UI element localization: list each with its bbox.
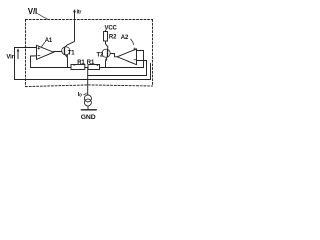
current source I0 — [84, 95, 91, 102]
leader A2 — [131, 39, 134, 45]
wire T2 base to A2 output — [111, 54, 117, 57]
arrow Vin pointing up — [17, 50, 19, 59]
svg-text:T1: T1 — [68, 51, 76, 57]
svg-text:VCC: VCC — [105, 26, 118, 32]
resistor R1 right — [88, 65, 100, 70]
svg-text:V/I: V/I — [28, 7, 37, 16]
svg-text:R1: R1 — [87, 60, 95, 66]
svg-text:A2: A2 — [121, 35, 129, 41]
wire bottom rail — [15, 63, 151, 79]
leader R1 right — [95, 64, 98, 65]
resistor R1 left — [71, 65, 85, 70]
dashed box V/I converter block — [26, 19, 153, 21]
ground — [81, 109, 96, 111]
op-amp A1 — [37, 45, 54, 59]
leader A1 — [42, 42, 45, 47]
svg-text:Vin: Vin — [6, 54, 15, 60]
wire Itr output current — [64, 10, 74, 48]
wire A1 output to T1 base — [54, 51, 62, 53]
transistor T1 — [62, 47, 70, 55]
wire A2 plus feedback to T2 emitter node — [100, 51, 144, 68]
svg-text:R2: R2 — [109, 34, 117, 40]
op-amp A2 — [117, 49, 136, 65]
svg-text:Itr: Itr — [77, 10, 82, 16]
wire T1 emitter down — [67, 58, 69, 68]
leader R1 left — [74, 64, 77, 65]
wire A2 minus feedback to center tap — [88, 61, 147, 76]
leader I0 — [84, 93, 87, 95]
svg-text:A1: A1 — [45, 38, 53, 44]
wire A1 feedback (minus input to emitter node) — [31, 56, 72, 68]
wire T2 emitter down — [105, 62, 107, 68]
wire VCC stub — [105, 30, 107, 32]
wire Vin input — [15, 47, 37, 49]
wire R1-R1 junction — [85, 67, 88, 69]
resistor R2 — [104, 32, 108, 42]
wire Vin source vertical — [14, 48, 16, 80]
wire current source to ground — [87, 106, 89, 109]
svg-text:T2: T2 — [97, 52, 105, 58]
leader V/I — [38, 14, 48, 20]
transistor T2 — [102, 49, 110, 57]
arrow Itr pointing down — [73, 11, 76, 15]
svg-text:GND: GND — [81, 114, 96, 120]
wire center tap down to current source — [87, 68, 89, 96]
svg-text:R1: R1 — [77, 60, 85, 66]
svg-text:I0: I0 — [78, 92, 82, 98]
wire R2 to T2 collector — [106, 41, 108, 50]
